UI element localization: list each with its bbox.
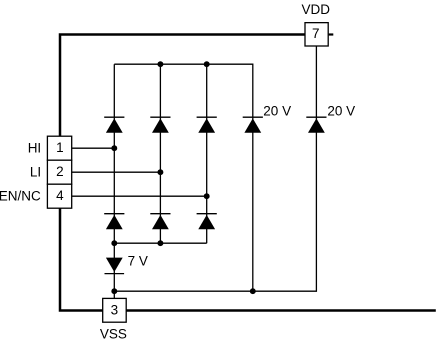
svg-text:VSS: VSS: [100, 326, 127, 341]
pin box 1: [47, 136, 71, 160]
svg-text:20 V: 20 V: [263, 103, 291, 118]
svg-text:1: 1: [56, 140, 64, 155]
pin box 3: [103, 298, 127, 322]
zener D5 20V column E: [306, 117, 326, 133]
wire column B vertical: [159, 64, 161, 243]
zener D4 20V column D: [243, 117, 263, 133]
svg-text:LI: LI: [30, 164, 41, 179]
node junction lower bus column A: [111, 240, 117, 246]
diode D7 lower column B: [150, 214, 170, 230]
svg-text:EN/NC: EN/NC: [0, 189, 41, 204]
wire stub right of pin 7: [329, 33, 334, 35]
wire top bus with bend down column D: [114, 64, 253, 291]
wire pin 1 row: [72, 147, 115, 149]
node junction lower bus column B: [157, 240, 163, 246]
node junction bottom rail column A: [111, 288, 117, 294]
node junction top bus column C: [204, 61, 210, 67]
svg-text:7: 7: [312, 26, 320, 41]
svg-text:4: 4: [56, 188, 64, 203]
wire column A vertical: [113, 64, 115, 298]
svg-text:7 V: 7 V: [128, 254, 148, 269]
diode D8 lower column C: [197, 214, 217, 230]
diode D3 upper column C: [197, 117, 217, 133]
pin box 2: [47, 160, 71, 184]
diode D6 lower column A: [104, 214, 124, 230]
svg-text:2: 2: [56, 164, 64, 179]
pin box 4: [47, 184, 71, 208]
diode D2 upper column B: [150, 117, 170, 133]
wire column C vertical: [206, 64, 208, 243]
wire lower bus: [114, 242, 206, 244]
wire thick VDD trace (top horizontal, left vertical, bottom horizontal): [60, 35, 436, 311]
node junction bottom rail column D: [250, 288, 256, 294]
svg-text:VDD: VDD: [301, 2, 330, 17]
node junction pin1 row to column A: [111, 145, 117, 151]
node junction top bus column B: [157, 61, 163, 67]
svg-text:3: 3: [111, 302, 119, 317]
wire pin 2 row: [72, 171, 161, 173]
diode D1 upper column A: [104, 117, 124, 133]
zener D9 7V column A pointing down: [105, 258, 125, 274]
wire pin 4 row: [72, 195, 207, 197]
pin box 7: [305, 23, 328, 46]
svg-text:HI: HI: [28, 140, 42, 155]
node junction pin4 row to column C: [204, 193, 210, 199]
wire column E vertical with bend into bottom rail: [114, 46, 316, 291]
node junction pin2 row to column B: [157, 169, 163, 175]
svg-text:20 V: 20 V: [327, 103, 355, 118]
